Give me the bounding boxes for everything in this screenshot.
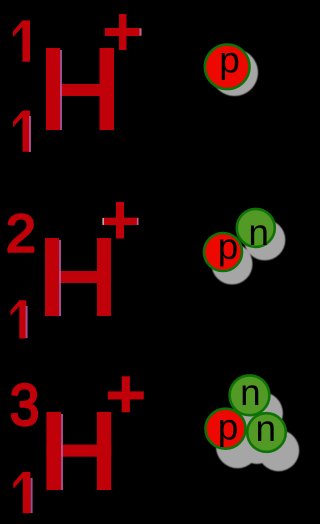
- svg-text:n: n: [240, 372, 261, 413]
- proton p (protium): [205, 40, 250, 90]
- svg-text:p: p: [218, 226, 239, 267]
- atomic number 1 (subscript, deuterium): [11, 300, 27, 338]
- chroma fringe artifacts (deuterium): [26, 218, 139, 338]
- svg-text:p: p: [218, 407, 239, 448]
- shadow (tritium nucleus): [216, 392, 299, 471]
- atomic number 1 (subscript, tritium): [13, 472, 30, 513]
- H symbol (protium): [46, 48, 114, 130]
- svg-text:2: 2: [6, 205, 36, 263]
- chroma fringe artifacts (tritium): [31, 414, 63, 513]
- plus charge (tritium): [108, 376, 144, 412]
- svg-text:n: n: [256, 408, 277, 449]
- shadow (protium nucleus): [211, 49, 258, 96]
- H symbol (tritium): [46, 412, 111, 490]
- neutron n (deuterium): [237, 209, 275, 253]
- plus charge (deuterium): [102, 202, 138, 239]
- mass number 3 (superscript, tritium): [10, 373, 40, 438]
- svg-text:n: n: [248, 212, 269, 253]
- mass number 1 (superscript, protium): [13, 20, 30, 61]
- proton p (deuterium): [204, 226, 242, 271]
- neutron n top (tritium): [230, 372, 270, 415]
- shadow (deuterium nucleus): [212, 219, 286, 284]
- svg-text:3: 3: [10, 373, 40, 438]
- mass number 2 (superscript, deuterium): [6, 205, 36, 263]
- H symbol (deuterium): [45, 238, 111, 316]
- svg-text:p: p: [219, 40, 240, 81]
- chroma fringe artifacts (protium): [29, 28, 142, 152]
- proton p (tritium): [206, 407, 246, 449]
- atomic number 1 (subscript, protium): [13, 111, 30, 152]
- plus charge (protium): [105, 14, 142, 50]
- neutron n right (tritium): [247, 408, 286, 452]
